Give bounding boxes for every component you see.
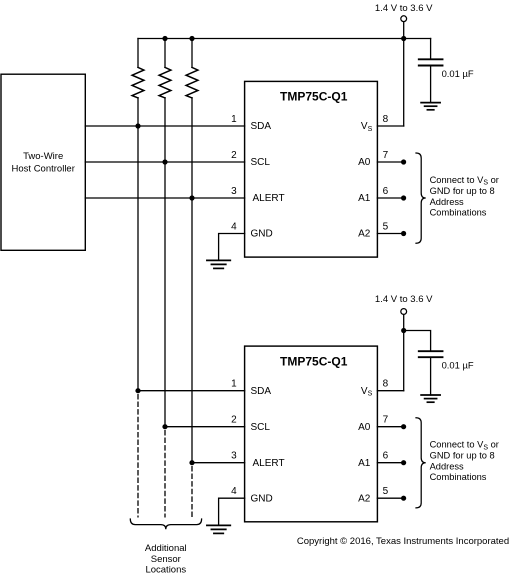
svg-text:Combinations: Combinations — [430, 472, 487, 482]
svg-text:8: 8 — [383, 114, 389, 125]
junction: SDA / R1 — [135, 123, 140, 128]
svg-text:Additional: Additional — [145, 543, 187, 554]
svg-text:A1: A1 — [358, 458, 371, 469]
junction: supply / bus (bottom) — [401, 328, 406, 333]
svg-text:3: 3 — [231, 451, 237, 462]
svg-text:ALERT: ALERT — [253, 193, 285, 204]
svg-text:Connect to VS or: Connect to VS or — [430, 440, 499, 452]
capacitor C2 — [419, 351, 443, 357]
wire: A2 pin 5 stub — [377, 233, 403, 235]
svg-text:SDA: SDA — [251, 386, 272, 397]
svg-text:7: 7 — [383, 415, 389, 426]
wire: supply vertical down to VS pin 8 corner — [403, 22, 405, 126]
svg-text:GND: GND — [251, 493, 273, 504]
wire: resistor R3 top segment — [191, 39, 193, 68]
svg-text:Locations: Locations — [145, 565, 186, 576]
svg-text:A0: A0 — [358, 422, 371, 433]
svg-text:Host Controller: Host Controller — [12, 163, 75, 174]
wire: U1 GND pin 4 to ground — [219, 234, 245, 261]
terminal dot: A1 pin 6 — [401, 195, 406, 200]
junction: ALERT2 / R3 run — [189, 460, 194, 465]
brace: U2 address pins — [416, 418, 426, 508]
wire: capacitor C2 to ground — [430, 358, 432, 395]
junction: bus / R2 — [162, 36, 167, 41]
wire: A1 pin 6 stub — [377, 197, 403, 199]
dashed wire: additional SDA — [137, 395, 139, 517]
wire: resistor R3 bottom run to ALERT2 junction — [191, 98, 193, 463]
wire: A0 pin 7 stub (U2) — [377, 426, 403, 428]
svg-text:0.01 µF: 0.01 µF — [442, 360, 474, 371]
IC U2 TMP75C-Q1 box — [245, 346, 378, 522]
capacitor C1 — [419, 59, 443, 65]
ground: U1 GND — [207, 260, 230, 268]
wire: A0 pin 7 stub — [377, 161, 403, 163]
wire: bus drop to capacitor C1 — [430, 39, 432, 60]
svg-text:4: 4 — [231, 486, 237, 497]
terminal dot: A0 pin 7 — [401, 159, 406, 164]
svg-text:Address: Address — [430, 197, 464, 207]
terminal dot: A0 pin 7 (U2) — [401, 424, 406, 429]
resistor R3 — [186, 67, 198, 98]
wire: resistor R2 bottom run to SCL2 junction — [164, 98, 166, 427]
junction: bus / supply — [401, 36, 406, 41]
wire: SDA from host to U1 — [85, 125, 244, 127]
svg-text:SCL: SCL — [251, 157, 271, 168]
svg-text:Combinations: Combinations — [430, 208, 487, 218]
wire: ALERT branch to U2 — [192, 462, 245, 464]
host controller box — [1, 74, 85, 250]
wire: supply bus to capacitor C2 — [404, 331, 431, 352]
svg-text:2: 2 — [231, 150, 237, 161]
svg-text:GND: GND — [251, 229, 273, 240]
svg-text:1.4 V to 3.6 V: 1.4 V to 3.6 V — [375, 294, 433, 305]
terminal dot: A2 pin 5 (U2) — [401, 496, 406, 501]
svg-text:SCL: SCL — [251, 422, 271, 433]
svg-text:A1: A1 — [358, 193, 371, 204]
svg-text:6: 6 — [383, 186, 389, 197]
svg-text:1: 1 — [231, 379, 237, 390]
svg-text:1: 1 — [231, 114, 237, 125]
svg-text:A2: A2 — [358, 493, 371, 504]
wire: resistor R1 bottom run to SDA2 junction — [137, 98, 139, 391]
wire: top power bus — [138, 38, 431, 40]
svg-text:TMP75C-Q1: TMP75C-Q1 — [280, 354, 348, 368]
wire: VS pin 8 stub — [377, 125, 403, 127]
wire: U2 GND pin 4 to ground — [219, 498, 245, 525]
svg-text:5: 5 — [383, 221, 389, 232]
svg-text:VS: VS — [361, 121, 373, 133]
svg-text:1.4 V to 3.6 V: 1.4 V to 3.6 V — [375, 3, 433, 14]
svg-text:Sensor: Sensor — [151, 554, 181, 565]
supply terminal (bottom) — [401, 309, 407, 315]
svg-text:2: 2 — [231, 415, 237, 426]
supply terminal (top) — [401, 16, 407, 22]
junction: SDA2 / R1 run — [135, 388, 140, 393]
svg-text:4: 4 — [231, 221, 237, 232]
dashed wire: additional SCL — [164, 431, 166, 517]
svg-text:A0: A0 — [358, 157, 371, 168]
ground: below C1 — [421, 103, 440, 110]
wire: A1 pin 6 stub (U2) — [377, 462, 403, 464]
ground: below C2 — [421, 395, 440, 402]
junction: SCL2 / R2 run — [162, 424, 167, 429]
svg-text:3: 3 — [231, 186, 237, 197]
resistor R2 — [159, 67, 171, 98]
svg-text:Two-Wire: Two-Wire — [23, 151, 63, 162]
wire: SCL branch to U2 — [165, 426, 245, 428]
wire: SCL from host to U1 — [85, 161, 244, 163]
svg-text:7: 7 — [383, 150, 389, 161]
svg-text:GND for up to 8: GND for up to 8 — [430, 451, 495, 461]
wire: resistor R1 top segment — [137, 39, 139, 68]
svg-text:5: 5 — [383, 486, 389, 497]
svg-text:GND for up to 8: GND for up to 8 — [430, 186, 495, 196]
svg-text:A2: A2 — [358, 229, 371, 240]
wire: VS pin 8 stub (U2) — [377, 390, 403, 392]
terminal dot: A1 pin 6 (U2) — [401, 460, 406, 465]
ground: U2 GND — [207, 525, 230, 533]
svg-text:SDA: SDA — [251, 121, 272, 132]
svg-text:TMP75C-Q1: TMP75C-Q1 — [280, 90, 348, 104]
svg-text:0.01 µF: 0.01 µF — [442, 68, 474, 79]
brace: additional sensor locations — [130, 519, 201, 529]
IC U1 TMP75C-Q1 box — [245, 81, 378, 257]
svg-text:6: 6 — [383, 451, 389, 462]
wire: capacitor C1 to ground — [430, 66, 432, 103]
svg-text:Address: Address — [430, 462, 464, 472]
resistor R1 — [132, 67, 144, 98]
wire: A2 pin 5 stub (U2) — [377, 497, 403, 499]
brace: U1 address pins — [416, 153, 426, 243]
svg-text:Connect to VS or: Connect to VS or — [430, 175, 499, 187]
wire: SDA branch to U2 — [138, 390, 245, 392]
junction: SCL / R2 — [162, 159, 167, 164]
svg-text:8: 8 — [383, 379, 389, 390]
wire: ALERT from host to U1 — [85, 197, 244, 199]
wire: resistor R2 top segment — [164, 39, 166, 68]
dashed wire: additional ALERT — [191, 467, 193, 517]
wire: supply vertical down to VS pin 8 corner (U2) — [403, 315, 405, 391]
svg-text:VS: VS — [361, 386, 373, 398]
terminal dot: A2 pin 5 — [401, 231, 406, 236]
svg-text:ALERT: ALERT — [253, 458, 285, 469]
junction: ALERT / R3 — [189, 195, 194, 200]
junction: bus / R3 — [189, 36, 194, 41]
svg-text:Copyright © 2016, Texas Instru: Copyright © 2016, Texas Instruments Inco… — [297, 536, 509, 547]
